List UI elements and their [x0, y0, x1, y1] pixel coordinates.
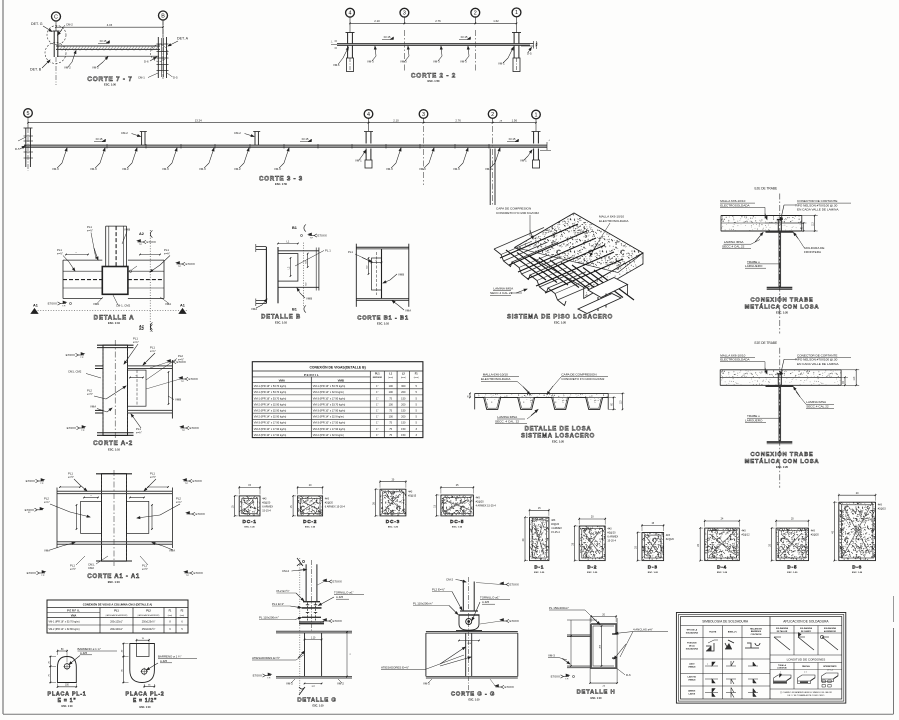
- corte G beam sides: [425, 633, 427, 676]
- svg-text:2.76: 2.76: [435, 19, 441, 23]
- detalle B inner dims: [278, 243, 298, 245]
- svg-text:PLACA PL-2: PLACA PL-2: [125, 692, 164, 698]
- detalle G plate PL2: [303, 601, 320, 603]
- svg-text:BARRENO ø 1 ¼": BARRENO ø 1 ¼": [158, 655, 182, 659]
- table conexion de vigas a columna CM-2: [47, 600, 188, 633]
- svg-text:4 ARMEX: 4 ARMEX: [551, 527, 562, 530]
- svg-text:RELLENO EN: RELLENO EN: [750, 629, 762, 631]
- svg-text:15-20-4: 15-20-4: [607, 540, 616, 543]
- svg-text:ESC. 1:10: ESC. 1:10: [377, 322, 390, 326]
- svg-text:VM-3: VM-3: [386, 167, 393, 171]
- svg-text:CM-2: CM-2: [121, 131, 128, 135]
- section D-1 left dimension: [525, 516, 528, 518]
- svg-text:CM1, CM2: CM1, CM2: [68, 370, 82, 374]
- svg-text:VM-3: VM-3: [52, 167, 59, 171]
- dimension 1.56 long: [493, 122, 536, 124]
- svg-text:VMA: VMA: [93, 302, 99, 306]
- svg-text:CM-1, CM2: CM-1, CM2: [116, 304, 131, 308]
- svg-text:SECC.4 CAL.22: SECC.4 CAL.22: [806, 405, 829, 409]
- corte A-2 dim marks beam right: [130, 377, 143, 379]
- svg-text:VM-2 (IPR 14" x 32.9 kg/m): VM-2 (IPR 14" x 32.9 kg/m): [313, 415, 344, 419]
- svg-text:VM-3 (IPR 10" x 17.90 kg/m): VM-3 (IPR 10" x 17.90 kg/m): [313, 409, 346, 413]
- table conexion de vigas detalle B: [252, 362, 423, 438]
- corte A-2 bottom plate stub left: [95, 409, 103, 411]
- section D-3 left dimension: [638, 532, 641, 534]
- svg-text:DE LA: DE LA: [689, 645, 695, 648]
- svg-text:BISEL (*): BISEL (*): [728, 632, 737, 634]
- post CM-2 first: [141, 132, 143, 146]
- svg-text:CORTE A1 - A1: CORTE A1 - A1: [87, 574, 140, 580]
- svg-text:VM-2: VM-2: [64, 66, 71, 70]
- concrete section D-2 outline: [579, 526, 605, 561]
- svg-text:ESC. 1:20: ESC. 1:20: [776, 465, 789, 469]
- column at axis 4: [347, 33, 349, 44]
- svg-text:ESC. 1:20: ESC. 1:20: [534, 572, 545, 574]
- corte G dim 200: [459, 640, 479, 642]
- detail bubble B dashed circle: [45, 43, 66, 64]
- svg-text:CM-2: CM-2: [446, 578, 453, 582]
- svg-text:PL 150x400x¼": PL 150x400x¼": [549, 606, 569, 610]
- detalle A left beam VMA plan: [63, 259, 102, 261]
- svg-text:3: 3: [403, 11, 406, 17]
- svg-text:A1: A1: [180, 304, 185, 308]
- svg-text:e=¾": e=¾": [133, 340, 139, 344]
- svg-text:4: 4: [349, 11, 352, 17]
- svg-text:SISTEMA DE PISO LOSACERO: SISTEMA DE PISO LOSACERO: [507, 315, 613, 321]
- detalle H inner dim 400: [601, 626, 603, 666]
- svg-text:1": 1": [376, 421, 378, 425]
- section DC-5 top dimension: [440, 486, 442, 494]
- svg-text:100: 100: [389, 415, 394, 419]
- corte A1 dim marks: [60, 486, 80, 488]
- dimension 60 and 113: [802, 215, 818, 217]
- svg-text:ELECTROSOLDADA: ELECTROSOLDADA: [599, 219, 629, 223]
- svg-text:15-25-4: 15-25-4: [551, 531, 560, 534]
- losacero corrugated deck front edge: [494, 249, 566, 306]
- svg-text:e=½": e=½": [68, 475, 74, 479]
- grid centerline axis 3 long: [423, 126, 425, 185]
- grid centerline axis 2: [474, 30, 476, 72]
- svg-text:LADOS: LADOS: [688, 693, 695, 696]
- svg-text:VM-3 (IPR 10" x 17.90 kg/m): VM-3 (IPR 10" x 17.90 kg/m): [254, 427, 287, 431]
- sheet border left edge: [2, 0, 4, 714]
- svg-text:D-5: D-5: [787, 565, 797, 571]
- svg-text:C: C: [54, 14, 58, 20]
- section D-2 left dimension: [575, 525, 578, 527]
- svg-text:250x125x½": 250x125x½": [142, 620, 156, 624]
- svg-text:LARGUERO: LARGUERO: [745, 264, 763, 268]
- svg-text:PARCIAL: PARCIAL: [802, 665, 811, 668]
- svg-text:LAMINA IMSA: LAMINA IMSA: [493, 287, 514, 291]
- svg-text:200: 200: [401, 390, 406, 394]
- svg-text:SOLDADURA: SOLDADURA: [800, 627, 813, 630]
- svg-text:D-3: D-3: [648, 565, 658, 571]
- corte B1 plate PL1 on web: [372, 258, 382, 290]
- svg-text:E = 1": E = 1": [58, 698, 77, 704]
- svg-text:A2: A2: [139, 325, 144, 329]
- svg-text:DET. A: DET. A: [177, 37, 189, 41]
- svg-text:e=½": e=½": [70, 567, 76, 571]
- svg-text:A-325: A-325: [336, 595, 344, 599]
- svg-text:PL1: PL1: [70, 564, 75, 568]
- section DC-1 left dimension: [235, 495, 238, 497]
- svg-text:DET. G: DET. G: [31, 22, 43, 26]
- svg-text:LARGUERO: LARGUERO: [745, 418, 763, 422]
- detalle B bolt centerline B1: [303, 243, 305, 308]
- section line A1-A1: [35, 310, 188, 312]
- svg-text:VM-2 (IPR 14" x 32.90 kg/m): VM-2 (IPR 14" x 32.90 kg/m): [254, 415, 287, 419]
- svg-text:PL2: PL2: [178, 354, 183, 358]
- svg-text:e=¾": e=¾": [136, 431, 142, 435]
- svg-text:PL1: PL1: [150, 472, 155, 476]
- svg-text:s: s: [780, 672, 781, 674]
- svg-text:VM-3: VM-3: [419, 167, 426, 171]
- svg-text:PL1: PL1: [164, 248, 169, 252]
- svg-text:VMA: VMA: [169, 549, 175, 553]
- losacero slab top face outline: [515, 213, 643, 287]
- svg-text:e=½": e=½": [87, 392, 93, 396]
- svg-text:E70XX: E70XX: [194, 571, 203, 575]
- svg-text:ESC. 1:10: ESC. 1:10: [275, 321, 288, 325]
- detalle de losa deck profile: [475, 397, 609, 409]
- cordones sketches: [774, 675, 792, 684]
- svg-text:DE TALLER: DE TALLER: [777, 630, 788, 633]
- svg-text:4#3: 4#3: [551, 519, 556, 522]
- svg-text:CORTE G - G: CORTE G - G: [451, 692, 495, 698]
- corte A-2 beam bottom flange right: [128, 409, 173, 411]
- svg-text:VM-3: VM-3: [548, 654, 555, 658]
- welding table inner frame: [681, 617, 842, 700]
- svg-text:4 ARMEX 15-25-4: 4 ARMEX 15-25-4: [476, 505, 497, 508]
- svg-text:CM-2: CM-2: [234, 131, 241, 135]
- svg-text:s: s: [91, 495, 92, 497]
- svg-text:e=⅜": e=⅜": [164, 252, 170, 256]
- placa PL-1 bolt hole: [64, 664, 69, 669]
- corte G plate stack: [460, 610, 478, 612]
- grid bubble C: [52, 12, 61, 21]
- svg-text:D-2: D-2: [587, 565, 597, 571]
- svg-text:A-325: A-325: [482, 600, 490, 604]
- svg-text:E70XX: E70XX: [505, 685, 514, 689]
- svg-text:E = 1/2": E = 1/2": [133, 698, 157, 704]
- svg-text:#2@20: #2@20: [607, 532, 616, 535]
- svg-text:PL1: PL1: [57, 248, 62, 252]
- svg-text:±3.15: ±3.15: [100, 39, 107, 43]
- detalle G beam bottom flange: [276, 675, 352, 677]
- corte A1 top beam flange: [57, 490, 172, 492]
- svg-text:DC-1: DC-1: [242, 519, 256, 525]
- corte B1 VMA flange left: [355, 244, 357, 307]
- svg-text:TIPO DE LA: TIPO DE LA: [686, 629, 697, 632]
- svg-text:150: 150: [401, 433, 406, 437]
- beam right end detail D-5: [530, 43, 534, 45]
- simbologia sub columns: [702, 626, 704, 700]
- svg-text:ATIESADORES E=½": ATIESADORES E=½": [252, 656, 280, 660]
- svg-text:CAPA DE COMPRESION: CAPA DE COMPRESION: [561, 373, 596, 377]
- svg-text:D-6: D-6: [144, 60, 149, 64]
- beam left end symbol: [335, 40, 338, 42]
- svg-text:ESC. 1:10: ESC. 1:10: [312, 705, 324, 708]
- svg-text:VMB: VMB: [124, 228, 130, 232]
- svg-text:DE "x" SE TOMARA ESTE COMO CER: DE "x" SE TOMARA ESTE COMO CERO: [788, 694, 825, 697]
- svg-text:4#3: 4#3: [408, 491, 413, 494]
- corte B1 VMB bottom flange: [356, 298, 409, 300]
- concrete section D-3 outline: [642, 533, 664, 561]
- svg-text:300: 300: [401, 384, 406, 388]
- svg-text:METÁLICA CON LOSA: METÁLICA CON LOSA: [745, 458, 820, 465]
- svg-text:VM-1 (IPR 16" x 53.70 kg/m): VM-1 (IPR 16" x 53.70 kg/m): [313, 402, 346, 406]
- svg-text:e=¾": e=¾": [44, 500, 50, 504]
- svg-text:1": 1": [376, 384, 378, 388]
- placa PL-2 dims: [137, 639, 150, 641]
- svg-text:#2@20: #2@20: [811, 534, 820, 537]
- svg-text:(mm): (mm): [388, 377, 393, 379]
- svg-text:±3.15: ±3.15: [509, 137, 516, 141]
- svg-text:VMA: VMA: [71, 615, 77, 618]
- detalle B connection plate PL1: [278, 254, 298, 282]
- beam right end detail long: [546, 142, 548, 150]
- svg-text:VM-2: VM-2: [234, 167, 241, 171]
- svg-text:SECC. 4 CAL. 22: SECC. 4 CAL. 22: [495, 419, 519, 423]
- svg-text:T.P.: T.P.: [182, 430, 186, 432]
- svg-text:SOLDADURA: SOLDADURA: [824, 627, 837, 630]
- svg-text:CON TAPON: CON TAPON: [751, 633, 762, 636]
- grid bubble 4 long: [364, 110, 373, 119]
- svg-text:VM-3 (IPR 10" x 17.90 kg/m): VM-3 (IPR 10" x 17.90 kg/m): [313, 427, 346, 431]
- section D-3 top dimension: [641, 524, 643, 531]
- svg-text:ESC. 1:20: ESC. 1:20: [648, 572, 659, 574]
- svg-text:ESC. 1:20: ESC. 1:20: [552, 440, 565, 444]
- corte A1 bottom beam flange: [57, 541, 172, 543]
- svg-text:VM-3: VM-3: [90, 167, 97, 171]
- svg-text:ESC. 1:20: ESC. 1:20: [587, 572, 598, 574]
- aplicacion sub columns: [793, 626, 795, 656]
- svg-text:A2: A2: [139, 232, 144, 236]
- svg-text:DETALLE DE LOSA: DETALLE DE LOSA: [525, 427, 592, 433]
- svg-text:T.P.: T.P.: [81, 430, 85, 432]
- svg-text:VM-3: VM-3: [199, 167, 206, 171]
- svg-text:e=½": e=½": [178, 358, 184, 362]
- svg-text:CM2: CM2: [88, 566, 94, 570]
- svg-text:CONCRETO F'C=200 KG/CM2: CONCRETO F'C=200 KG/CM2: [496, 211, 539, 215]
- svg-text:E70XX: E70XX: [333, 619, 342, 623]
- column at axis 1: [513, 33, 515, 44]
- svg-text:⊥: ⊥: [331, 40, 334, 44]
- svg-text:PL2: PL2: [176, 497, 181, 501]
- svg-text:ELECTROSOLDADA: ELECTROSOLDADA: [481, 377, 511, 381]
- column base at axis 1: [513, 58, 520, 72]
- detalle G plate PL 110x200: [302, 616, 321, 618]
- svg-text:1": 1": [376, 427, 378, 431]
- svg-text:ESC. 1:10: ESC. 1:10: [61, 705, 73, 708]
- svg-text:PL2 E=½": PL2 E=½": [277, 589, 290, 593]
- concrete section DC-2 outline: [298, 496, 323, 516]
- svg-text:200x100x1": 200x100x1": [110, 628, 123, 631]
- svg-text:E70XX: E70XX: [186, 262, 195, 266]
- detalle G beam top flange: [276, 630, 352, 632]
- detalle G break symbol top: [297, 558, 303, 566]
- svg-text:(mm): (mm): [401, 377, 406, 379]
- svg-text:PL1: PL1: [87, 225, 92, 229]
- svg-text:VM-2 (IPR 14" x 32.90 kg/m): VM-2 (IPR 14" x 32.90 kg/m): [254, 409, 287, 413]
- svg-text:A-325: A-325: [160, 659, 168, 663]
- corte A1 column body: [102, 474, 127, 562]
- svg-text:ESC. 1:50: ESC. 1:50: [275, 182, 288, 186]
- svg-text:s: s: [707, 664, 708, 666]
- weld flag detalle B: [300, 234, 302, 236]
- svg-text:E70XX: E70XX: [510, 619, 519, 623]
- detalle A dim ticks right beam: [140, 254, 160, 256]
- svg-text:VMA: VMA: [405, 309, 411, 313]
- placa PL-1 plate outline: [58, 657, 77, 683]
- svg-text:T.P.: T.P.: [80, 357, 84, 359]
- losacero I-beam below: [588, 278, 628, 298]
- svg-text:PLACA PL-1: PLACA PL-1: [47, 692, 86, 698]
- svg-text:VM-1 (IPR 16" x 53.70 kg/m): VM-1 (IPR 16" x 53.70 kg/m): [49, 621, 80, 624]
- svg-text:T.P.: T.P.: [40, 483, 44, 485]
- corte B1 dims: [368, 258, 370, 274]
- svg-text:150: 150: [401, 409, 406, 413]
- section DC-3 top dimension: [379, 480, 381, 488]
- svg-text:4 ANCLAS ø⅜": 4 ANCLAS ø⅜": [633, 628, 653, 632]
- svg-text:ESC. 1:20: ESC. 1:20: [554, 321, 567, 325]
- concrete section D-6 outline: [839, 502, 876, 560]
- svg-text:E70XX: E70XX: [66, 353, 75, 357]
- svg-text:APLICACION DE SOLDADURA: APLICACION DE SOLDADURA: [783, 620, 829, 624]
- svg-text:INTERMITENTE: INTERMITENTE: [823, 666, 837, 668]
- svg-text:ESC. 1:20: ESC. 1:20: [852, 572, 863, 574]
- svg-text:(mm): (mm): [414, 377, 419, 379]
- corte A-2 inner plate PL2 box: [128, 370, 147, 406]
- corte A-2 beam top flange right: [128, 365, 173, 367]
- svg-text:T.P.: T.P.: [565, 679, 569, 681]
- left column at axis 5: [25, 128, 27, 167]
- svg-text:CONEXIÓN DE VIGAS(DETALLE B): CONEXIÓN DE VIGAS(DETALLE B): [309, 364, 365, 369]
- svg-text:VMA: VMA: [44, 549, 50, 553]
- column at axis 4 long: [365, 132, 367, 144]
- svg-text:FILETE: FILETE: [709, 632, 717, 634]
- corte A1 plate PL2 right: [127, 501, 149, 533]
- svg-text:e=½": e=½": [57, 252, 63, 256]
- svg-text:#2@20: #2@20: [325, 501, 334, 504]
- detalle B VMB beam horizontal: [278, 250, 319, 252]
- svg-text:6 ARMEX: 6 ARMEX: [262, 505, 273, 508]
- svg-text:CM-2: CM-2: [282, 569, 289, 573]
- svg-text:3: 3: [422, 112, 425, 118]
- svg-text:VM-2 (IPR 14" x 32.9 kg/m): VM-2 (IPR 14" x 32.9 kg/m): [313, 433, 344, 437]
- svg-text:ESC. 1:10: ESC. 1:10: [108, 580, 121, 584]
- svg-text:1: 1: [515, 10, 518, 16]
- svg-text:CM-2: CM-2: [66, 23, 73, 27]
- svg-text:250x100x½": 250x100x½": [142, 627, 156, 631]
- dimension 2.76 long: [424, 122, 493, 124]
- sheet border right edge: [893, 628, 895, 714]
- detalle G dim 127: [305, 683, 322, 685]
- svg-text:T.P.: T.P.: [310, 238, 314, 240]
- svg-text:±3.15: ±3.15: [302, 137, 309, 141]
- detalle H channel section: [591, 624, 616, 668]
- svg-text:CONEXIÓN TRABE: CONEXIÓN TRABE: [751, 296, 814, 304]
- svg-text:VM-1 (IPR 16" x 53.70 kg/m): VM-1 (IPR 16" x 53.70 kg/m): [254, 396, 287, 400]
- svg-text:E70XX: E70XX: [253, 674, 262, 678]
- svg-text:E70XX: E70XX: [196, 512, 205, 516]
- svg-text:LADO: LADO: [689, 663, 695, 666]
- svg-text:VM-1 (IPR 16" x 53.70 kg/m): VM-1 (IPR 16" x 53.70 kg/m): [254, 390, 287, 394]
- weld position sketches: [706, 643, 714, 651]
- svg-text:PL1: PL1: [150, 346, 155, 350]
- svg-text:VM-2: VM-2: [122, 167, 129, 171]
- svg-text:VM-3 (IPR 10" x 17.90 kg/m): VM-3 (IPR 10" x 17.90 kg/m): [254, 421, 287, 425]
- svg-text:E70XX: E70XX: [193, 479, 202, 483]
- svg-text:CM-1: CM-1: [138, 76, 145, 80]
- svg-text:DETALLE G: DETALLE G: [297, 698, 336, 704]
- dimension 13.24: [28, 122, 369, 124]
- deck band: [720, 378, 841, 385]
- placa PL-2 inner notch: [137, 644, 150, 657]
- svg-text:(mm): (mm): [180, 615, 185, 617]
- svg-text:100: 100: [389, 402, 394, 406]
- corte G stiffener center: [465, 633, 467, 676]
- svg-text:SIMBOLOGIA DE SOLDADURA: SIMBOLOGIA DE SOLDADURA: [702, 620, 749, 624]
- svg-text:CORTE B1 - B1: CORTE B1 - B1: [357, 316, 409, 322]
- detalle H dim extension box: [589, 618, 591, 683]
- grid centerline axis 3: [403, 30, 405, 72]
- svg-text:D-5: D-5: [173, 76, 178, 80]
- detalle de losa slab band: [475, 392, 609, 394]
- svg-text:200: 200: [401, 402, 406, 406]
- svg-text:ELECTROSOLDADA: ELECTROSOLDADA: [720, 203, 750, 207]
- concrete section D-1 outline: [530, 517, 549, 560]
- beam VM continuous: [337, 43, 530, 45]
- svg-text:TORNILLO ø1": TORNILLO ø1": [334, 591, 354, 595]
- corte G base plate: [456, 630, 482, 632]
- svg-text:EN CADA VALLE DE LAMINA.: EN CADA VALLE DE LAMINA.: [797, 362, 839, 366]
- beam web: [778, 233, 780, 288]
- corte A1 top cap ticks: [96, 473, 132, 475]
- svg-text:SOLDADURA: SOLDADURA: [686, 632, 699, 635]
- section DC-5 left dimension: [436, 494, 439, 496]
- svg-text:±3.15: ±3.15: [384, 35, 391, 39]
- grid bubble 1 long: [532, 110, 541, 119]
- svg-text:PL2 E=½": PL2 E=½": [432, 588, 445, 592]
- detalle A center column box CM-1 CM2: [102, 267, 128, 295]
- svg-text:B: B: [161, 13, 165, 19]
- svg-text:D-1: D-1: [534, 565, 544, 571]
- svg-text:E70XX: E70XX: [26, 479, 35, 483]
- weld ambos lados symbols: [705, 689, 718, 697]
- beam web: [778, 387, 780, 442]
- sheet border bottom edge: [3, 713, 894, 715]
- svg-text:VISIBLE: VISIBLE: [688, 667, 696, 669]
- svg-text:D-5: D-5: [527, 52, 532, 56]
- svg-text:PL 110x200x¾": PL 110x200x¾": [413, 602, 433, 606]
- svg-text:e=½": e=½": [150, 475, 156, 479]
- svg-text:#2@20: #2@20: [262, 501, 271, 504]
- svg-text:DETALLE A: DETALLE A: [94, 315, 135, 322]
- svg-text:2: 2: [474, 11, 477, 17]
- grid bubble 3 long: [419, 110, 428, 119]
- svg-text:1": 1": [376, 402, 378, 406]
- placa PL-2 plate outline: [130, 644, 155, 683]
- svg-text:E70XX: E70XX: [189, 377, 198, 381]
- svg-text:VM-2 (IPR 14" x 32.9 kg/m): VM-2 (IPR 14" x 32.9 kg/m): [313, 390, 344, 394]
- section D-6 left dimension: [834, 501, 837, 503]
- grid centerline axis 2 long: [492, 126, 494, 205]
- svg-text:METÁLICA CON LOSA: METÁLICA CON LOSA: [745, 304, 820, 311]
- svg-text:DC-5: DC-5: [450, 519, 464, 525]
- svg-text:PL1: PL1: [142, 564, 147, 568]
- svg-text:1.10: 1.10: [311, 637, 316, 639]
